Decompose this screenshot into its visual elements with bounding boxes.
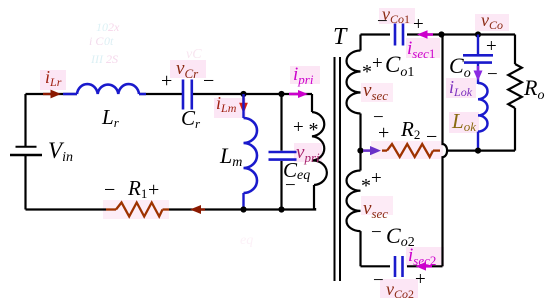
svg-text:+: +	[415, 269, 426, 290]
arrow R2 current	[363, 146, 381, 155]
svg-text:+: +	[293, 117, 304, 138]
node dot center tap	[357, 148, 363, 154]
inductor Lm	[244, 118, 258, 193]
svg-text:0t: 0t	[104, 34, 114, 48]
transformer secondary winding 2	[347, 171, 361, 232]
capacitor Co	[463, 55, 493, 62]
capacitor Co2	[395, 256, 403, 277]
arrow bottom-left	[190, 205, 205, 214]
halo v_pri	[294, 143, 322, 162]
arrow i_pri	[289, 90, 308, 98]
halo i_Lok	[446, 78, 476, 98]
transformer secondary winding 1	[347, 51, 361, 114]
inductor Lok	[478, 83, 488, 132]
secondary winding 2 lead bottom	[359, 231, 361, 266]
capacitor Cr	[183, 80, 192, 110]
halo i_pri	[290, 66, 320, 84]
arrow i_Lm	[239, 96, 248, 114]
halo L_ok	[449, 112, 479, 133]
inductor Lm branch wire	[242, 94, 244, 210]
arrow i_sec1	[417, 30, 433, 39]
svg-text:−: −	[104, 179, 115, 201]
watermark ghost 2	[186, 47, 202, 62]
vertical link wire with hop	[443, 35, 448, 267]
inductor Lr	[63, 84, 146, 94]
halo R2	[371, 141, 443, 159]
wire left vertical	[24, 94, 26, 210]
svg-text:eq: eq	[240, 233, 253, 248]
node dot top B	[278, 91, 284, 97]
wire bottom rail	[26, 208, 316, 210]
primary winding leads	[312, 94, 314, 210]
arrow i_Lr	[43, 90, 61, 99]
svg-text:10: 10	[96, 20, 108, 34]
transformer primary winding	[312, 112, 327, 185]
capacitor Ceq branch wire	[280, 94, 282, 210]
svg-text:vC: vC	[186, 47, 202, 62]
watermark ghost 1	[89, 20, 120, 66]
halo i_Lr	[40, 70, 66, 90]
svg-text:+: +	[378, 122, 389, 144]
svg-text:+: +	[372, 53, 383, 74]
svg-text:−: −	[426, 126, 437, 148]
wire bottom output	[361, 265, 443, 267]
node dot vCo	[475, 31, 481, 37]
secondary winding 1 lead bottom	[359, 114, 361, 151]
node dot top A	[240, 91, 246, 97]
secondary winding 2 lead top	[359, 151, 361, 171]
secondary winding 1 lead top	[359, 35, 361, 51]
inductor Lok lead	[477, 132, 479, 151]
svg-text:III: III	[90, 52, 104, 66]
svg-text:2S: 2S	[106, 52, 118, 66]
wire output bottom rail	[446, 150, 515, 152]
resistor R2	[382, 144, 440, 157]
capacitor Ceq	[269, 152, 297, 160]
halo v_Co	[475, 14, 509, 31]
node dot Lok bottom	[475, 148, 481, 154]
halo v_Co2	[380, 279, 418, 298]
arrow i_sec2	[416, 262, 433, 271]
halo R1	[103, 200, 169, 219]
svg-text:+: +	[413, 14, 424, 35]
svg-text:*: *	[361, 175, 371, 197]
resistor Ro leads	[514, 35, 516, 151]
transformer core	[335, 57, 341, 281]
arrow i_Lok	[474, 66, 483, 81]
svg-text:+: +	[148, 179, 159, 201]
svg-text:−: −	[371, 222, 382, 243]
wire secondary top rail	[361, 33, 516, 35]
watermark ghost 3	[240, 233, 253, 248]
svg-text:−: −	[285, 175, 296, 196]
svg-text:*: *	[309, 119, 319, 141]
node dot bottom B	[278, 206, 284, 212]
capacitor Co1	[395, 24, 403, 46]
svg-text:i C: i C	[89, 34, 104, 48]
svg-text:+: +	[486, 36, 497, 57]
svg-text:−: −	[487, 64, 498, 85]
svg-text:+: +	[371, 168, 382, 189]
halo v_sec2	[361, 196, 393, 215]
node dot sec rail left	[438, 31, 444, 37]
halo i_Lm	[214, 98, 246, 118]
svg-text:−: −	[203, 70, 214, 92]
halo v_Co1	[379, 8, 415, 24]
halo v_sec1	[361, 83, 393, 102]
svg-text:T: T	[333, 24, 348, 50]
capacitor Co branch	[477, 35, 479, 85]
svg-text:2x: 2x	[108, 20, 120, 34]
wire top-left rail	[26, 93, 313, 95]
resistor Ro	[508, 64, 522, 108]
svg-text:+: +	[161, 70, 172, 92]
svg-text:−: −	[373, 270, 384, 291]
halo i_sec1	[406, 38, 440, 58]
battery Vin	[10, 147, 42, 155]
resistor R1	[106, 203, 169, 217]
node dot bottom A	[240, 206, 246, 212]
halo i_sec2	[406, 247, 444, 267]
halo v_Cr	[170, 60, 206, 78]
